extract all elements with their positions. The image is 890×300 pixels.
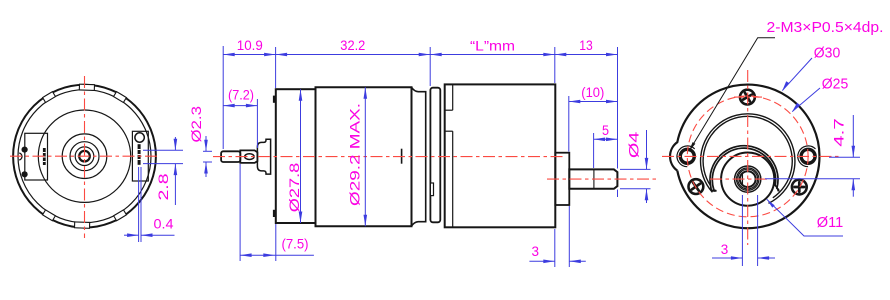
svg-text:Ø4: Ø4 xyxy=(626,132,642,159)
svg-text:Ø11: Ø11 xyxy=(817,215,844,231)
svg-text:32.2: 32.2 xyxy=(340,38,365,54)
svg-text:2-M3×P0.5×4dp.: 2-M3×P0.5×4dp. xyxy=(767,19,884,36)
svg-text:Ø2.3: Ø2.3 xyxy=(189,106,205,143)
svg-text:Ø25: Ø25 xyxy=(822,77,849,93)
svg-text:2.8: 2.8 xyxy=(156,173,172,200)
svg-text:(7.2): (7.2) xyxy=(228,88,254,104)
svg-text:3: 3 xyxy=(532,244,540,260)
svg-text:4.7: 4.7 xyxy=(832,118,848,147)
svg-text:Ø30: Ø30 xyxy=(814,46,841,62)
svg-text:13: 13 xyxy=(579,38,593,54)
svg-text:10.9: 10.9 xyxy=(237,38,263,54)
svg-text:0.4: 0.4 xyxy=(154,217,174,233)
svg-text:3: 3 xyxy=(721,242,729,258)
svg-text:(10): (10) xyxy=(581,85,604,101)
svg-text:Ø27.8: Ø27.8 xyxy=(287,163,303,213)
svg-text:Ø29.2 MAX.: Ø29.2 MAX. xyxy=(348,103,364,206)
svg-text:(7.5): (7.5) xyxy=(282,237,309,253)
svg-text:“L”mm: “L”mm xyxy=(470,39,515,55)
svg-text:5: 5 xyxy=(602,123,609,139)
